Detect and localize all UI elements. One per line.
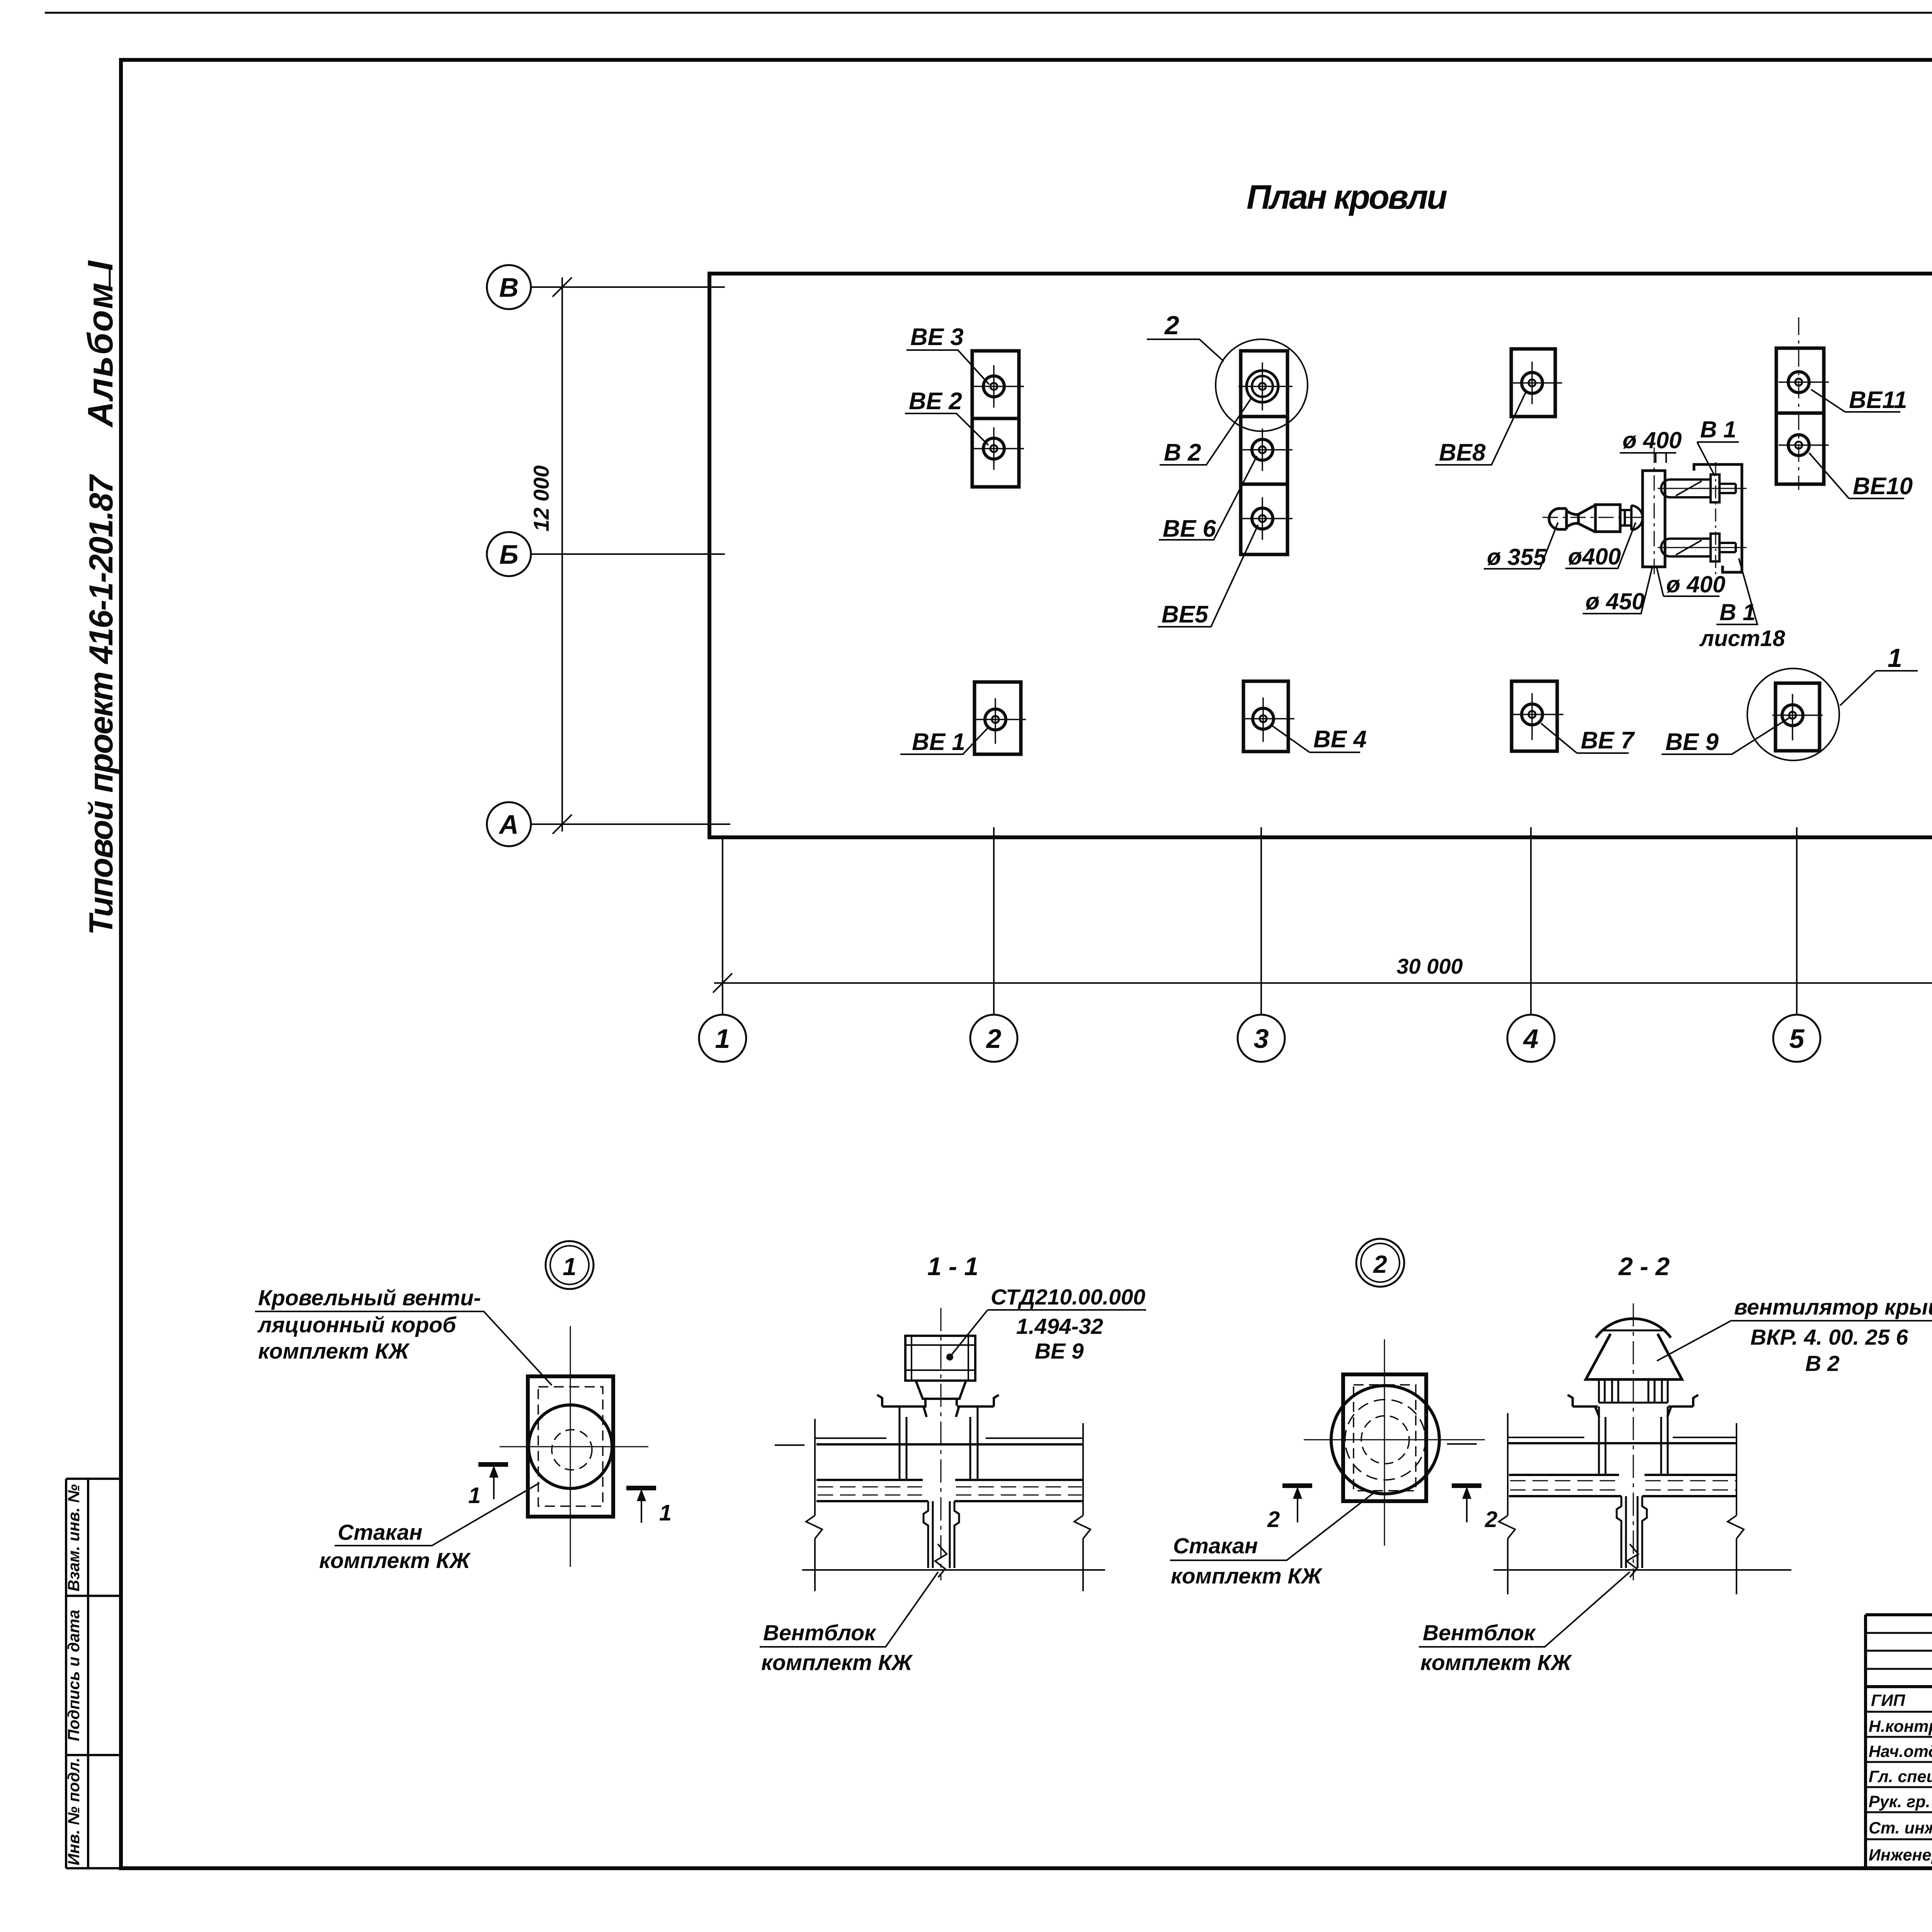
column axis circle 4 <box>1507 1015 1554 1062</box>
detail 2 stakan body <box>1343 1374 1426 1501</box>
column axis circle 2 <box>970 1015 1017 1062</box>
svg-text:лист18: лист18 <box>1699 626 1786 651</box>
svg-text:2: 2 <box>1485 1507 1497 1532</box>
left support line of section 2-2 <box>1507 1413 1509 1594</box>
svg-text:ВЕ10: ВЕ10 <box>1853 473 1913 500</box>
svg-text:ВЕ 9: ВЕ 9 <box>1665 729 1719 755</box>
vent element BE10 <box>1779 435 1829 456</box>
detail 1 vent pipe circle <box>529 1405 612 1488</box>
section cut mark 2 left <box>1267 1486 1312 1532</box>
svg-text:4: 4 <box>1523 1024 1539 1054</box>
svg-text:В 1: В 1 <box>1719 599 1755 625</box>
svg-text:ВЕ 7: ВЕ 7 <box>1581 727 1635 754</box>
svg-text:1: 1 <box>563 1253 577 1281</box>
roof deck lines of section 1-1 <box>815 1438 1083 1444</box>
svg-text:Н.контр.: Н.контр. <box>1869 1717 1932 1736</box>
centerline of BE11/BE10 block <box>1798 317 1799 490</box>
vent block BE9 body <box>1776 683 1820 751</box>
side stamp table <box>66 1479 121 1868</box>
detail mark circle 1 on plan <box>1747 668 1839 760</box>
svg-text:В 2: В 2 <box>1164 439 1201 466</box>
row axis circle В <box>487 265 531 309</box>
svg-text:3: 3 <box>1254 1024 1269 1054</box>
column axis circle 5 <box>1773 1015 1820 1062</box>
svg-text:СТД210.00.000: СТД210.00.000 <box>991 1285 1146 1310</box>
svg-text:ø 355: ø 355 <box>1487 544 1547 570</box>
B1 intake cap <box>1549 509 1566 529</box>
axis line А <box>531 823 730 825</box>
svg-text:1: 1 <box>715 1024 730 1054</box>
label ф400 bottom <box>1657 568 1725 597</box>
column grid line 3 <box>1260 827 1262 1015</box>
vent element BE4 <box>1243 697 1294 742</box>
break mark in shaft of section 2-2 <box>1627 1544 1638 1577</box>
svg-text:ляционный короб: ляционный короб <box>257 1313 457 1337</box>
svg-text:1.494-32: 1.494-32 <box>1016 1314 1103 1339</box>
vent block shaft of section 2-2 <box>1617 1496 1647 1568</box>
roof level stub left of section 2-2 <box>1447 1443 1477 1445</box>
section 1-1 centerline <box>940 1308 942 1580</box>
label BE10 <box>1809 453 1913 500</box>
svg-text:ø 450: ø 450 <box>1585 588 1645 614</box>
svg-text:Вентблок: Вентблок <box>1423 1621 1536 1645</box>
label B1 top <box>1697 417 1739 476</box>
rain collar of section 2-2 <box>1568 1395 1698 1417</box>
vent element BE5 <box>1242 497 1293 540</box>
detail mark 1 <box>546 1241 594 1289</box>
label BE4 <box>1272 726 1367 753</box>
detail 2 centerlines <box>1304 1339 1485 1546</box>
B1 bottom duct stub <box>1658 534 1747 561</box>
roof level stub left of section 1-1 <box>775 1444 804 1446</box>
vent block BE8 body <box>1511 349 1555 417</box>
svg-text:Инженер: Инженер <box>1869 1846 1932 1864</box>
label ф450 <box>1583 566 1653 614</box>
label ф400 top <box>1620 427 1682 463</box>
break mark left support 2-2 <box>1499 1515 1515 1539</box>
svg-text:ø 400: ø 400 <box>1622 427 1682 453</box>
stakan walls of section 1-1 <box>900 1406 978 1480</box>
svg-text:Стакан: Стакан <box>338 1520 422 1545</box>
svg-text:ВЕ 9: ВЕ 9 <box>1035 1339 1084 1364</box>
floor line of section 1-1 <box>802 1569 1105 1571</box>
svg-text:ВЕ8: ВЕ8 <box>1439 439 1486 466</box>
svg-text:2: 2 <box>986 1024 1002 1054</box>
svg-text:Подпись и дата: Подпись и дата <box>65 1610 83 1741</box>
roof plan outline <box>709 274 1932 837</box>
vent block BE1 body <box>975 682 1021 754</box>
floor line of section 2-2 <box>1493 1569 1791 1571</box>
B1 diffuser cone <box>1566 505 1595 532</box>
vent element BE2 <box>974 427 1024 470</box>
svg-text:2: 2 <box>1267 1507 1280 1532</box>
label ventblock (section 2-2) <box>1419 1572 1630 1675</box>
detail 2 hidden duct outline <box>1354 1385 1416 1491</box>
vent element BE11 <box>1779 372 1829 393</box>
B1 connection bump <box>1631 505 1643 530</box>
STD unit box <box>905 1336 975 1381</box>
detail 2 fan circle <box>1331 1386 1439 1494</box>
label roof vent box (3 lines) <box>255 1286 552 1385</box>
svg-text:1: 1 <box>468 1483 481 1508</box>
break mark right support 1-1 <box>1074 1515 1090 1539</box>
roof fan B2 <box>1238 362 1293 410</box>
svg-text:А: А <box>498 810 519 840</box>
detail 1 centerlines <box>500 1326 648 1567</box>
B1 flange plate <box>1643 471 1665 567</box>
row axis circle Б <box>487 532 531 576</box>
svg-text:Типовой проект 416-1-201.87: Типовой проект 416-1-201.87 <box>83 474 120 935</box>
STD transition cone <box>916 1381 966 1406</box>
label roof fan VKR <box>1657 1295 1932 1376</box>
label stakan KZh (detail 1) <box>319 1483 539 1573</box>
detail 1 hidden duct outline <box>538 1387 603 1506</box>
svg-text:Кровельный венти-: Кровельный венти- <box>258 1286 481 1310</box>
left support line of section 1-1 <box>814 1419 816 1591</box>
svg-text:2: 2 <box>1164 311 1179 340</box>
right support line of section 2-2 <box>1736 1423 1737 1594</box>
section cut mark 1 right <box>626 1488 672 1526</box>
vertical dimension line 12000 <box>553 277 572 834</box>
section cut mark 2 right <box>1452 1486 1497 1532</box>
roof deck lines of section 2-2 <box>1508 1437 1736 1443</box>
svg-text:30 000: 30 000 <box>1396 954 1463 978</box>
B1 neck <box>1620 505 1631 530</box>
svg-text:Взам. инв. №: Взам. инв. № <box>65 1484 83 1591</box>
svg-text:комплект КЖ: комплект КЖ <box>1420 1650 1573 1675</box>
fan skirt cone of section 2-2 <box>1586 1334 1682 1379</box>
svg-text:ВЕ 6: ВЕ 6 <box>1163 515 1216 542</box>
B1 top duct stub <box>1658 474 1747 502</box>
row axis circle А <box>487 802 531 846</box>
B1 horizontal centerline <box>1543 517 1645 518</box>
svg-text:комплект КЖ: комплект КЖ <box>258 1339 410 1364</box>
B1 casing block <box>1595 505 1620 532</box>
svg-text:1 - 1: 1 - 1 <box>927 1252 978 1281</box>
svg-text:Рук. гр.: Рук. гр. <box>1869 1793 1930 1811</box>
svg-text:5: 5 <box>1789 1024 1805 1054</box>
sheet outer border top line <box>45 12 1932 14</box>
label 1 (detail callout) <box>1840 643 1918 706</box>
label BE6 <box>1159 456 1257 542</box>
column axis circle 1 <box>699 1015 746 1062</box>
label BE2 <box>905 388 988 445</box>
detail 1 hidden circle <box>552 1430 592 1470</box>
svg-text:Ст. инж.: Ст. инж. <box>1869 1819 1932 1837</box>
stakan walls of section 2-2 <box>1599 1406 1668 1475</box>
vent element BE7 <box>1512 693 1563 740</box>
label 2 (detail callout) <box>1147 311 1224 361</box>
vent block BE11/BE10 body <box>1776 348 1824 484</box>
svg-text:ВЕ 2: ВЕ 2 <box>909 388 962 415</box>
svg-text:Вентблок: Вентблок <box>763 1621 877 1645</box>
column axis circle 3 <box>1238 1015 1285 1062</box>
signature table roles <box>1869 1691 1932 1864</box>
svg-text:12 000: 12 000 <box>529 465 553 531</box>
vent element BE1 <box>975 698 1026 744</box>
label BE7 <box>1541 723 1635 754</box>
break mark in shaft of section 1-1 <box>935 1544 947 1577</box>
column grid line 5 <box>1796 827 1798 1015</box>
underline of roman I <box>109 266 111 288</box>
break mark right support 2-2 <box>1728 1515 1744 1539</box>
label stakan KZh (detail 2) <box>1170 1491 1376 1588</box>
roof slab of section 2-2 <box>1509 1475 1736 1496</box>
fan dome of section 2-2 <box>1596 1319 1671 1338</box>
svg-text:комплект КЖ: комплект КЖ <box>761 1650 913 1675</box>
label BE9 <box>1662 718 1789 755</box>
vent element BE8 <box>1512 362 1562 404</box>
label STD210.00.000 <box>946 1285 1146 1364</box>
vent block shaft of section 1-1 <box>923 1501 959 1568</box>
axis line В <box>531 286 725 288</box>
svg-text:План кровли: План кровли <box>1247 178 1447 216</box>
break mark left support 1-1 <box>806 1515 822 1539</box>
svg-text:Инв. № подл.: Инв. № подл. <box>65 1757 83 1865</box>
svg-text:ВЕ 3: ВЕ 3 <box>910 324 964 350</box>
svg-text:В 1: В 1 <box>1700 417 1736 442</box>
fan louver band of section 2-2 <box>1599 1379 1668 1403</box>
axis line Б <box>531 553 725 555</box>
label BE8 <box>1435 391 1526 466</box>
svg-text:комплект КЖ: комплект КЖ <box>319 1548 471 1573</box>
roof slab of section 1-1 <box>816 1480 1083 1501</box>
section 2-2 centerline <box>1633 1303 1634 1580</box>
vent block B2/BE6/BE5 body <box>1241 351 1287 554</box>
svg-text:ВЕ 4: ВЕ 4 <box>1313 726 1367 753</box>
vent element BE6 <box>1242 429 1293 471</box>
detail mark circle 2 on plan <box>1216 339 1308 431</box>
svg-text:1: 1 <box>1888 643 1902 673</box>
column grid line 1 <box>722 837 723 1015</box>
svg-text:вентилятор крышный: вентилятор крышный <box>1734 1295 1932 1320</box>
svg-text:Гл. спец.: Гл. спец. <box>1869 1767 1932 1786</box>
svg-text:ø400: ø400 <box>1568 544 1621 570</box>
svg-text:ВКР. 4. 00. 25 6: ВКР. 4. 00. 25 6 <box>1750 1325 1908 1350</box>
B1 vertical centerline <box>1654 447 1655 578</box>
label ventblock (section 1-1) <box>760 1572 938 1675</box>
svg-text:ø 400: ø 400 <box>1666 571 1725 597</box>
B1 mounting bracket <box>1694 464 1742 572</box>
detail 1 stakan body <box>528 1376 613 1517</box>
svg-text:Стакан: Стакан <box>1173 1534 1258 1558</box>
label BE1 <box>900 726 989 755</box>
svg-text:2: 2 <box>1373 1250 1387 1278</box>
svg-text:2 - 2: 2 - 2 <box>1618 1252 1670 1281</box>
vent element BE3 <box>974 365 1024 408</box>
vent block BE4 body <box>1243 681 1288 752</box>
svg-text:1: 1 <box>659 1500 672 1526</box>
column grid line 4 <box>1530 827 1532 1015</box>
label BE5 <box>1158 525 1258 628</box>
label ф400 left <box>1565 522 1636 570</box>
vent element BE9 <box>1772 694 1823 740</box>
horizontal dimension line 30000 <box>713 973 1932 993</box>
section cut mark 1 left <box>468 1464 508 1508</box>
vent block BE7 body <box>1512 681 1557 751</box>
label B1 bottom with sheet ref <box>1699 558 1786 651</box>
svg-text:Альбом I: Альбом I <box>81 260 120 428</box>
detail 2 hidden circles <box>1345 1400 1425 1480</box>
svg-text:ВЕ 1: ВЕ 1 <box>912 729 965 755</box>
label BE11 <box>1811 387 1907 413</box>
svg-text:Б: Б <box>499 539 519 570</box>
detail mark 2 <box>1356 1239 1404 1287</box>
label ф355 <box>1484 522 1558 570</box>
column grid line 2 <box>993 827 995 1015</box>
svg-text:В 2: В 2 <box>1805 1351 1840 1376</box>
svg-text:ГИП: ГИП <box>1871 1691 1905 1710</box>
svg-text:комплект КЖ: комплект КЖ <box>1171 1564 1323 1588</box>
vent block BE3/BE2 body <box>972 351 1019 487</box>
B1 bracket bolt centerline <box>1715 462 1716 577</box>
label BE3 <box>906 324 989 384</box>
rain collar of section 1-1 <box>877 1395 999 1417</box>
svg-text:ВЕ5: ВЕ5 <box>1162 601 1209 628</box>
right support line of section 1-1 <box>1082 1423 1084 1591</box>
svg-text:В: В <box>499 272 519 303</box>
svg-text:Нач.отд.: Нач.отд. <box>1869 1742 1932 1761</box>
svg-text:ВЕ11: ВЕ11 <box>1849 387 1907 413</box>
label B2 <box>1160 397 1252 466</box>
